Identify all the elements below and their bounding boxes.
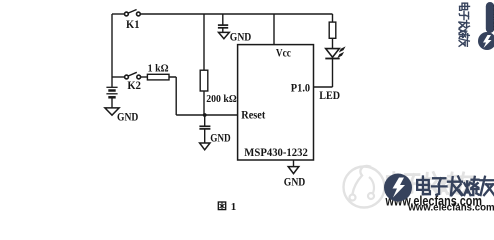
svg-text:200 kΩ: 200 kΩ [206, 93, 237, 105]
svg-text:K1: K1 [126, 19, 140, 31]
svg-text:LED: LED [319, 88, 340, 102]
svg-text:Reset: Reset [241, 110, 265, 122]
svg-text:www.elecfans.com: www.elecfans.com [407, 202, 494, 214]
svg-text:1 kΩ: 1 kΩ [148, 63, 169, 75]
svg-text:Vcc: Vcc [276, 47, 291, 59]
svg-text:MSP430-1232: MSP430-1232 [244, 145, 307, 159]
svg-text:GND: GND [230, 31, 252, 43]
svg-text:K2: K2 [127, 80, 141, 92]
svg-text:GND: GND [210, 132, 231, 144]
svg-text:1: 1 [231, 201, 237, 213]
svg-text:GND: GND [117, 112, 138, 124]
svg-text:P1.0: P1.0 [291, 82, 311, 94]
svg-text:GND: GND [284, 174, 306, 188]
